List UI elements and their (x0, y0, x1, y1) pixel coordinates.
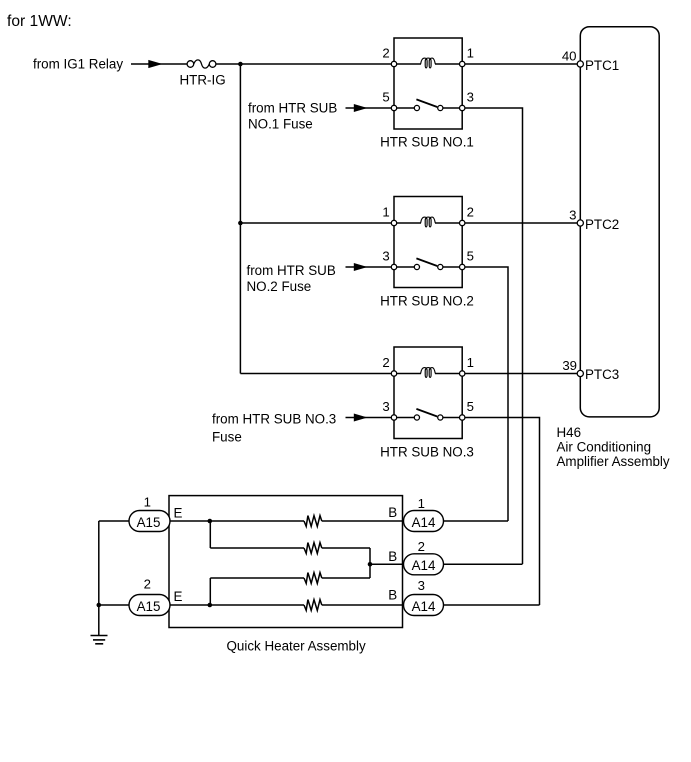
resistor row2 (304, 543, 322, 554)
svg-text:from HTR SUB: from HTR SUB (248, 100, 337, 115)
relay2 pin 3 circle (391, 264, 396, 269)
resistor row3 (304, 573, 322, 584)
svg-text:HTR SUB NO.1: HTR SUB NO.1 (380, 135, 474, 150)
arrow feed2 (354, 263, 368, 271)
svg-text:A14: A14 (412, 599, 436, 614)
svg-text:PTC2: PTC2 (585, 217, 619, 232)
relay2 switch contact circle left (414, 264, 419, 269)
wire junction to A14-2 (370, 563, 404, 565)
heater row1 wire E to B (170, 520, 304, 522)
svg-text:HTR-IG: HTR-IG (180, 73, 226, 88)
svg-text:A14: A14 (412, 558, 436, 573)
wire from IG1 Relay to fuse (131, 63, 187, 65)
svg-text:2: 2 (382, 46, 389, 61)
svg-text:1: 1 (467, 355, 474, 370)
wire relay3 pin1 to PTC3 (462, 373, 580, 375)
svg-text:2: 2 (418, 539, 425, 554)
resistor row4 (304, 600, 322, 611)
svg-text:PTC1: PTC1 (585, 58, 619, 73)
arrow feed1 (354, 104, 368, 112)
quick heater assembly box (169, 496, 403, 628)
connector A15 pin1 oval (129, 511, 170, 532)
relay1 switch wire (394, 107, 417, 109)
relay HTR SUB NO.1 box (394, 38, 462, 129)
svg-text:5: 5 (467, 399, 474, 414)
relay2 pin 1 circle (391, 220, 396, 225)
svg-text:B: B (388, 549, 397, 564)
wire relay1 pin1 to PTC1 (462, 63, 580, 65)
junction dot row1 (208, 519, 213, 524)
svg-text:5: 5 (382, 90, 389, 105)
relay1 coil wire (394, 63, 421, 65)
relay1 switch blade (416, 99, 437, 107)
relay3 switch blade (416, 409, 437, 417)
relay3 switch contact circle left (414, 415, 419, 420)
relay HTR SUB NO.2 box (394, 197, 462, 288)
svg-text:40: 40 (562, 49, 577, 64)
wire feed2 to relay2 pin3 (346, 266, 395, 268)
connector A14 pin3 oval (404, 595, 444, 616)
relay3 pin 1 circle (460, 371, 465, 376)
svg-text:PTC3: PTC3 (585, 367, 619, 382)
svg-text:3: 3 (569, 208, 576, 223)
svg-text:HTR SUB NO.2: HTR SUB NO.2 (380, 294, 474, 309)
A/C amplifier assembly box H46 (580, 27, 659, 417)
svg-text:from HTR SUB: from HTR SUB (247, 263, 336, 278)
relay1 pin 3 circle (460, 105, 465, 110)
ground symbol (91, 636, 108, 644)
svg-text:2: 2 (144, 576, 151, 591)
junction dot row4 (208, 603, 213, 608)
connector A14 pin1 oval (404, 511, 444, 532)
relay1 pin 2 circle (391, 61, 396, 66)
svg-text:2: 2 (467, 205, 474, 220)
wire A14-2 to relay1 (444, 563, 523, 565)
svg-text:1: 1 (144, 495, 151, 510)
junction dot A15-2 (97, 603, 102, 608)
relay3 switch contact circle right (438, 415, 443, 420)
svg-text:HTR SUB NO.3: HTR SUB NO.3 (380, 445, 474, 460)
wire row3 to row4 (209, 578, 211, 605)
svg-text:from HTR SUB NO.3: from HTR SUB NO.3 (212, 412, 336, 427)
wire fuse to relay1 pin2 (216, 63, 394, 65)
svg-text:A14: A14 (412, 515, 436, 530)
svg-text:39: 39 (562, 358, 577, 373)
wire relay2 pin2 to PTC2 (462, 222, 580, 224)
svg-text:NO.1 Fuse: NO.1 Fuse (248, 116, 313, 131)
wire row2 to row3 (369, 548, 371, 578)
wire bus corner to relay3 pin2 (240, 373, 394, 375)
wire A14-3 to relay3 (444, 604, 540, 606)
connector A14 pin2 oval (404, 554, 444, 575)
resistor row1 (304, 516, 322, 527)
PTC3 pin circle (577, 370, 583, 376)
PTC2 pin circle (577, 220, 583, 226)
wire bus to relay2 pin1 (240, 222, 394, 224)
svg-text:B: B (388, 505, 397, 520)
relay3 pin 5 circle (460, 415, 465, 420)
relay2 coil wire (394, 222, 421, 224)
wire feed3 to relay3 pin3 (346, 417, 395, 419)
heater row4 wire E to B (170, 604, 304, 606)
relay3 coil (421, 368, 436, 378)
relay1 pin 1 circle (460, 61, 465, 66)
svg-text:2: 2 (382, 355, 389, 370)
relay1 switch contact circle right (438, 105, 443, 110)
svg-text:for 1WW:: for 1WW: (7, 13, 72, 30)
svg-text:3: 3 (418, 578, 425, 593)
relay2 pin 5 circle (460, 264, 465, 269)
junction dot A14-2 branch (368, 562, 373, 567)
svg-text:3: 3 (467, 90, 474, 105)
svg-text:A15: A15 (137, 515, 161, 530)
heater row2 wire (210, 547, 304, 549)
svg-text:Amplifier Assembly: Amplifier Assembly (557, 454, 670, 469)
relay2 coil (421, 217, 436, 227)
fuse HTR-IG (194, 60, 210, 68)
wire A15-2 to ground bus (99, 604, 129, 606)
relay3 coil wire (394, 373, 421, 375)
relay2 switch blade (416, 258, 437, 266)
wire relay1 pin3 to A14-2 (462, 108, 522, 564)
relay1 switch contact circle left (414, 105, 419, 110)
PTC1 pin circle (577, 61, 583, 67)
relay1 pin 5 circle (391, 105, 396, 110)
relay2 switch contact circle right (438, 264, 443, 269)
ground bus vertical wire (98, 521, 100, 636)
arrow feed3 (354, 414, 368, 422)
svg-text:B: B (388, 588, 397, 603)
svg-text:3: 3 (382, 399, 389, 414)
wire A14-1 to relay2 (444, 520, 509, 522)
svg-text:from IG1 Relay: from IG1 Relay (33, 57, 123, 72)
connector A15 pin2 oval (129, 595, 170, 616)
relay HTR SUB NO.3 box (394, 347, 462, 439)
junction dot after fuse (238, 62, 243, 67)
svg-text:H46: H46 (557, 425, 582, 440)
relay2 pin 2 circle (460, 220, 465, 225)
relay1 coil (421, 58, 436, 68)
junction dot at relay2 branch (238, 221, 243, 226)
svg-text:3: 3 (382, 249, 389, 264)
wire relay3 pin5 to A14-3 (462, 418, 539, 606)
vertical bus wire (239, 64, 241, 374)
svg-text:1: 1 (418, 496, 425, 511)
svg-text:Fuse: Fuse (212, 429, 242, 444)
relay2 switch wire (394, 266, 417, 268)
wire feed1 to relay1 pin5 (346, 107, 395, 109)
relay3 pin 2 circle (391, 371, 396, 376)
relay3 pin 3 circle (391, 415, 396, 420)
svg-text:1: 1 (467, 46, 474, 61)
svg-text:Air Conditioning: Air Conditioning (557, 440, 652, 455)
svg-text:A15: A15 (137, 599, 161, 614)
svg-text:NO.2 Fuse: NO.2 Fuse (247, 279, 312, 294)
svg-text:E: E (174, 505, 183, 520)
svg-text:5: 5 (467, 249, 474, 264)
svg-text:Quick Heater Assembly: Quick Heater Assembly (227, 639, 366, 654)
svg-text:E: E (174, 589, 183, 604)
fuse HTR-IG left terminal circle (187, 61, 194, 68)
fuse HTR-IG right terminal circle (209, 61, 216, 68)
heater row3 wire (210, 577, 304, 579)
svg-text:1: 1 (382, 205, 389, 220)
wire row1 to row2 (209, 521, 211, 548)
relay3 switch wire (394, 417, 417, 419)
wire A15-1 to ground bus (99, 520, 129, 522)
arrow on IG1 wire (148, 60, 162, 68)
wire relay2 pin5 to A14-1 (462, 267, 508, 521)
